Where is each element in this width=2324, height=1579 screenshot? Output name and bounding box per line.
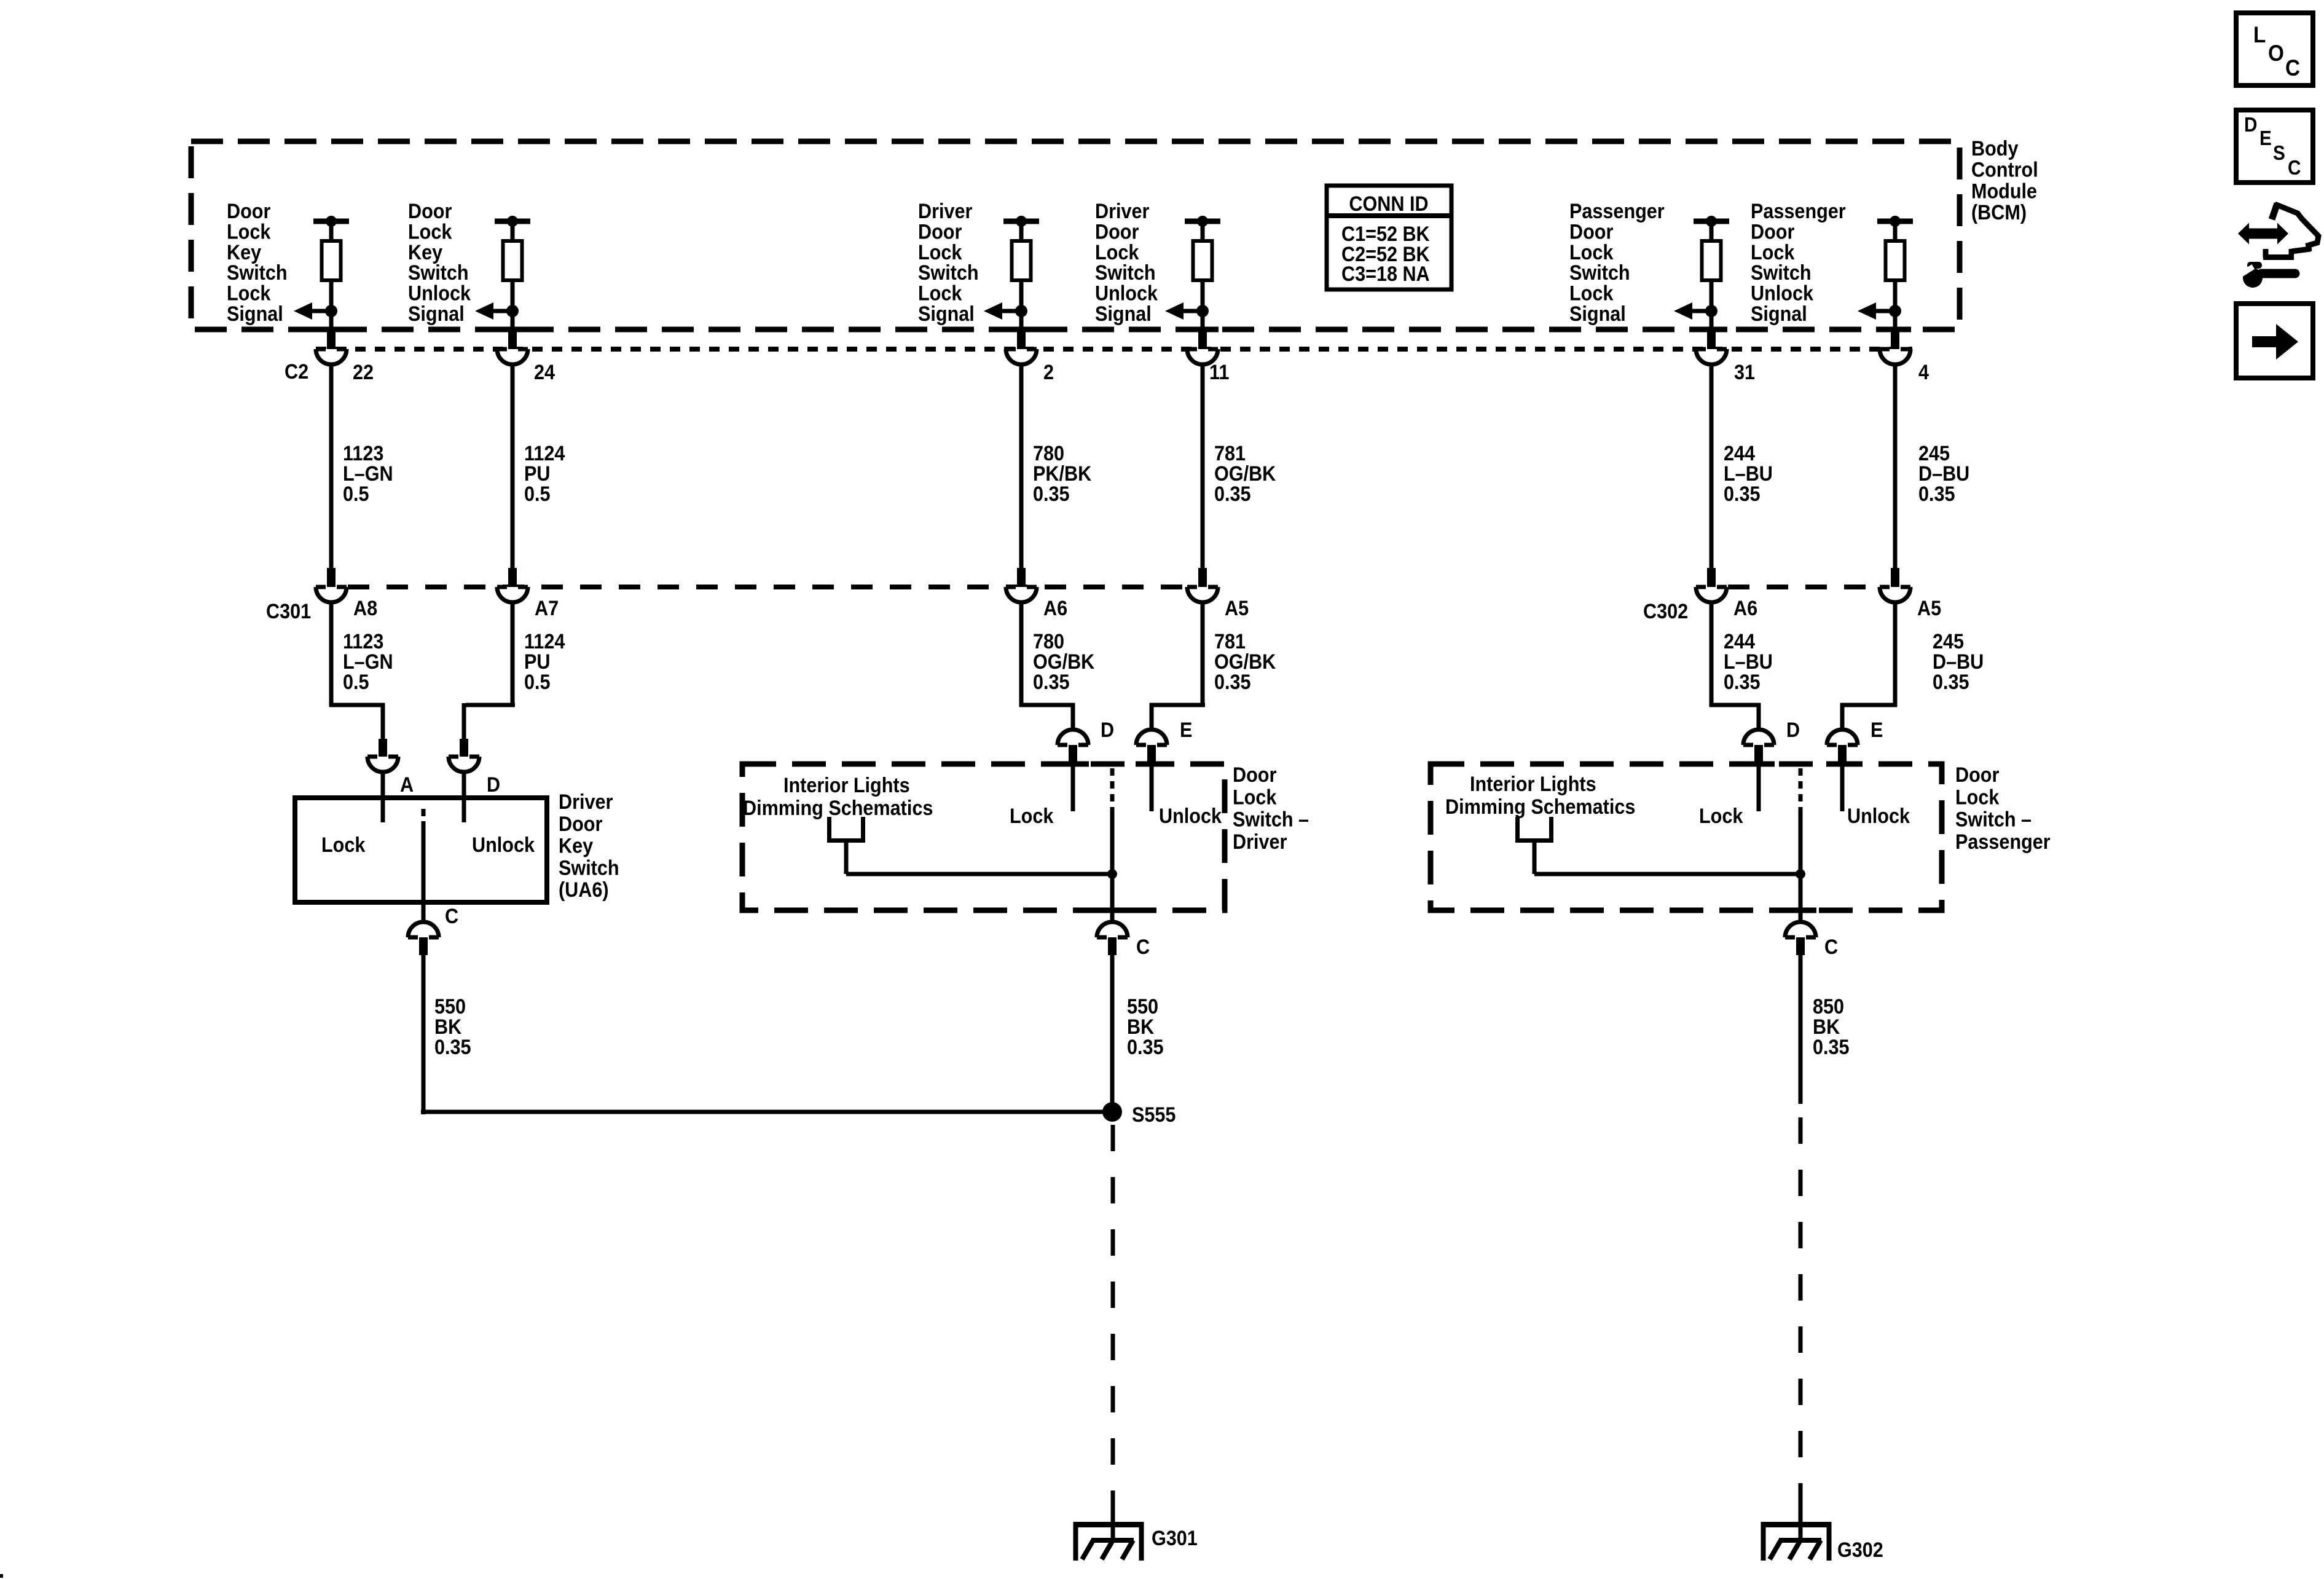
svg-text:D: D xyxy=(487,773,500,797)
svg-text:S: S xyxy=(2273,142,2285,165)
svg-text:CONN ID: CONN ID xyxy=(1349,192,1428,216)
svg-text:Door: Door xyxy=(1751,220,1795,243)
svg-text:Unlock: Unlock xyxy=(1847,805,1910,828)
svg-text:Dimming Schematics: Dimming Schematics xyxy=(1445,795,1635,819)
svg-text:0.35: 0.35 xyxy=(1033,671,1070,694)
svg-text:24: 24 xyxy=(534,361,555,384)
svg-text:C301: C301 xyxy=(266,600,311,623)
svg-text:A8: A8 xyxy=(353,597,377,620)
svg-text:Dimming Schematics: Dimming Schematics xyxy=(743,797,933,820)
svg-text:Interior Lights: Interior Lights xyxy=(783,774,910,797)
svg-text:Door: Door xyxy=(1095,220,1139,243)
svg-text:E: E xyxy=(1180,719,1192,742)
svg-text:Unlock: Unlock xyxy=(1751,282,1814,305)
svg-text:Unlock: Unlock xyxy=(472,833,535,857)
svg-text:Lock: Lock xyxy=(1751,240,1795,264)
svg-text:Lock: Lock xyxy=(227,282,271,305)
svg-text:Module: Module xyxy=(1971,179,2037,203)
svg-text:2: 2 xyxy=(1043,361,1054,384)
svg-text:0.35: 0.35 xyxy=(1127,1036,1164,1059)
svg-text:E: E xyxy=(1871,719,1883,742)
svg-text:0.5: 0.5 xyxy=(524,671,551,694)
svg-text:Signal: Signal xyxy=(227,302,283,326)
svg-text:E: E xyxy=(2259,127,2272,150)
svg-text:Control: Control xyxy=(1971,158,2038,181)
svg-text:Passenger: Passenger xyxy=(1569,200,1665,223)
svg-text:0.35: 0.35 xyxy=(1214,671,1251,694)
svg-text:0.5: 0.5 xyxy=(524,482,551,506)
svg-text:Passenger: Passenger xyxy=(1751,200,1846,223)
svg-text:Signal: Signal xyxy=(408,302,465,326)
svg-text:Switch –: Switch – xyxy=(1955,808,2032,831)
svg-text:Unlock: Unlock xyxy=(1095,282,1158,305)
svg-text:Lock: Lock xyxy=(1569,282,1614,305)
svg-text:Lock: Lock xyxy=(1233,786,1277,809)
svg-text:(UA6): (UA6) xyxy=(559,878,609,902)
svg-text:C: C xyxy=(445,905,458,928)
svg-text:Door: Door xyxy=(1955,763,2000,787)
svg-text:Switch: Switch xyxy=(559,856,619,880)
svg-text:D: D xyxy=(2244,114,2257,136)
svg-text:Key: Key xyxy=(227,240,261,264)
svg-text:Driver: Driver xyxy=(1095,200,1150,223)
svg-text:Door: Door xyxy=(918,220,962,243)
svg-text:22: 22 xyxy=(353,361,374,384)
svg-text:C3=18 NA: C3=18 NA xyxy=(1341,262,1430,286)
svg-text:Switch –: Switch – xyxy=(1233,808,1309,831)
svg-text:G301: G301 xyxy=(1152,1527,1198,1550)
svg-text:0.5: 0.5 xyxy=(343,671,369,694)
svg-text:(BCM): (BCM) xyxy=(1971,201,2027,224)
svg-text:C: C xyxy=(2285,55,2300,81)
svg-text:D: D xyxy=(1786,719,1800,742)
svg-text:C: C xyxy=(1824,935,1838,959)
svg-text:Switch: Switch xyxy=(227,261,288,285)
svg-text:11: 11 xyxy=(1209,361,1229,384)
svg-text:0.35: 0.35 xyxy=(434,1036,471,1059)
svg-text:A: A xyxy=(400,773,414,797)
svg-text:Lock: Lock xyxy=(1699,805,1743,828)
svg-text:Signal: Signal xyxy=(1751,302,1807,326)
svg-text:Lock: Lock xyxy=(1569,240,1614,264)
svg-text:A7: A7 xyxy=(535,597,559,620)
svg-text:Lock: Lock xyxy=(227,220,271,243)
svg-text:0.35: 0.35 xyxy=(1918,482,1955,506)
svg-text:C2: C2 xyxy=(285,360,308,384)
svg-text:0.35: 0.35 xyxy=(1813,1036,1850,1059)
svg-text:Signal: Signal xyxy=(918,302,975,326)
svg-text:0.35: 0.35 xyxy=(1033,482,1070,506)
svg-text:4: 4 xyxy=(1918,361,1929,384)
svg-text:Unlock: Unlock xyxy=(408,282,471,305)
svg-text:Door: Door xyxy=(227,200,271,223)
svg-text:Key: Key xyxy=(559,834,593,857)
svg-text:Door: Door xyxy=(1569,220,1614,243)
svg-text:A5: A5 xyxy=(1917,597,1941,620)
svg-text:A6: A6 xyxy=(1733,597,1757,620)
svg-text:A6: A6 xyxy=(1043,597,1067,620)
svg-text:31: 31 xyxy=(1734,361,1755,384)
svg-text:Switch: Switch xyxy=(1569,261,1630,285)
svg-text:Switch: Switch xyxy=(1751,261,1812,285)
svg-text:Signal: Signal xyxy=(1569,302,1626,326)
svg-text:Signal: Signal xyxy=(1095,302,1152,326)
svg-text:Lock: Lock xyxy=(321,833,366,857)
svg-text:O: O xyxy=(2268,41,2284,66)
svg-text:Switch: Switch xyxy=(918,261,979,285)
svg-text:Driver: Driver xyxy=(559,790,613,814)
svg-text:Lock: Lock xyxy=(918,240,962,264)
svg-text:Door: Door xyxy=(408,200,452,223)
svg-text:Body: Body xyxy=(1971,137,2018,160)
svg-text:Interior Lights: Interior Lights xyxy=(1470,773,1596,796)
svg-text:Lock: Lock xyxy=(408,220,452,243)
svg-text:Door: Door xyxy=(1233,763,1277,787)
svg-text:Lock: Lock xyxy=(1010,805,1054,828)
svg-text:Lock: Lock xyxy=(918,282,962,305)
svg-text:D: D xyxy=(1101,719,1114,742)
svg-text:Lock: Lock xyxy=(1955,786,2000,809)
svg-text:Driver: Driver xyxy=(1233,830,1287,853)
svg-text:C302: C302 xyxy=(1643,600,1688,623)
svg-text:Driver: Driver xyxy=(918,200,973,223)
svg-text:L: L xyxy=(2253,22,2266,47)
svg-text:Unlock: Unlock xyxy=(1159,805,1222,828)
svg-text:0.35: 0.35 xyxy=(1724,671,1761,694)
svg-text:G302: G302 xyxy=(1837,1538,1883,1562)
svg-text:0.5: 0.5 xyxy=(343,482,369,506)
svg-text:0.35: 0.35 xyxy=(1214,482,1251,506)
svg-text:Passenger: Passenger xyxy=(1955,830,2051,853)
svg-text:A5: A5 xyxy=(1225,597,1249,620)
svg-text:Switch: Switch xyxy=(408,261,469,285)
svg-text:C: C xyxy=(1136,935,1150,959)
svg-text:0.35: 0.35 xyxy=(1933,671,1969,694)
svg-text:Door: Door xyxy=(559,812,603,835)
svg-text:C: C xyxy=(2288,157,2301,179)
svg-text:0.35: 0.35 xyxy=(1724,482,1761,506)
svg-text:Switch: Switch xyxy=(1095,261,1156,285)
svg-text:Lock: Lock xyxy=(1095,240,1139,264)
svg-text:Key: Key xyxy=(408,240,442,264)
svg-text:S555: S555 xyxy=(1132,1103,1176,1127)
